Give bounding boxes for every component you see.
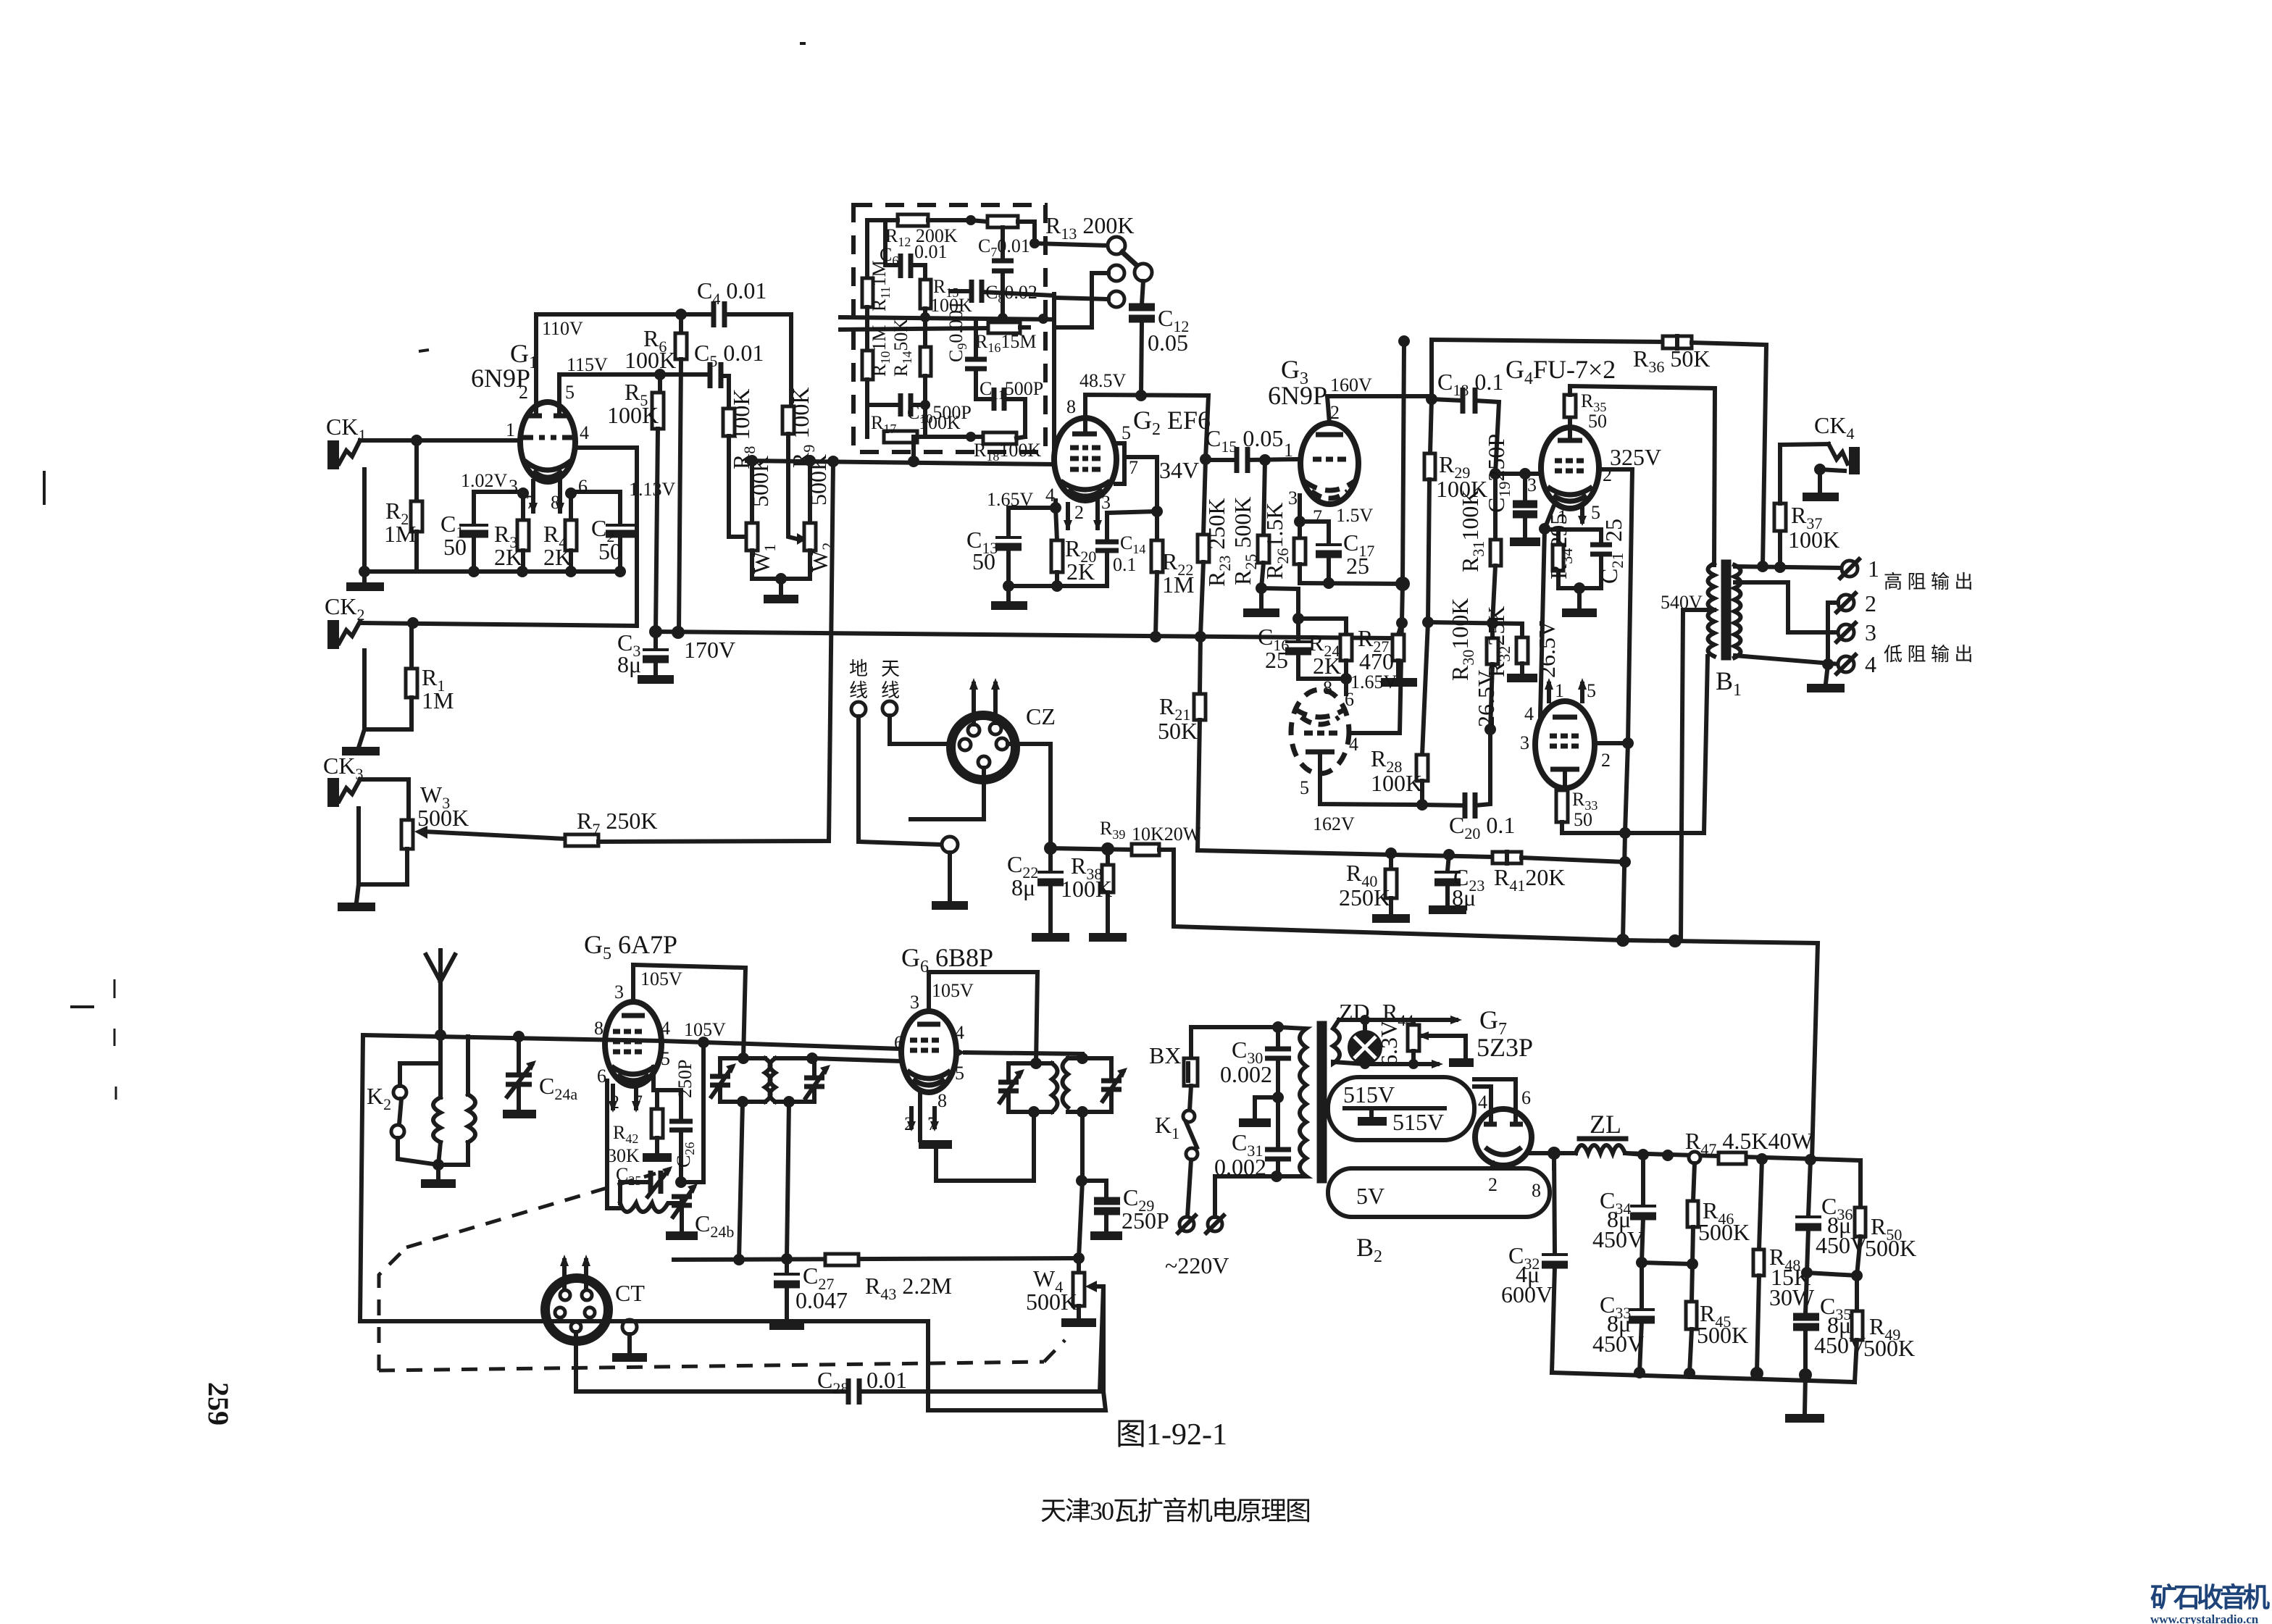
svg-text:R3225K: R3225K [1483,606,1513,677]
wire R21 decoupling rail [1198,847,1492,861]
wire 515V to rectifier plates [1474,1079,1531,1120]
svg-text:4: 4 [580,422,589,443]
svg-text:2: 2 [1601,750,1611,771]
svg-text:图1-92-1: 图1-92-1 [1116,1418,1227,1452]
antenna coil primary [421,1035,456,1184]
svg-text:6: 6 [894,1032,903,1053]
resistor R15 100K [920,265,972,317]
svg-text:450V: 450V [1592,1226,1644,1252]
wire G2 grid bus [746,455,1054,467]
svg-text:160V: 160V [1330,374,1372,395]
page margin marks [44,43,806,1100]
resistor R29 100K [1424,393,1487,622]
wire tank B bottom drop to C27 [787,1102,789,1258]
svg-text:515V: 515V [1392,1109,1444,1135]
wire cathode ground bus [364,569,620,574]
svg-text:4: 4 [661,1018,670,1039]
capacitor C26 250P [669,1060,697,1182]
svg-text:100K: 100K [1371,770,1422,796]
svg-text:25: 25 [1265,647,1288,673]
antenna [426,950,455,1041]
svg-text:450V: 450V [1592,1331,1644,1357]
svg-text:CT: CT [615,1280,645,1306]
resistor R4 2K [543,487,577,572]
svg-text:48.5V: 48.5V [1079,370,1127,391]
svg-text:ZL: ZL [1590,1110,1621,1139]
mains terminal 1 [1178,1215,1195,1233]
wire tone network to G2 grid [1052,294,1056,464]
resistor R28 100K [1371,622,1428,805]
wire G3a plate 160V line [1327,396,1430,423]
svg-text:26.5V: 26.5V [1534,621,1560,678]
wire CK1 sleeve down [362,469,367,572]
capacitor C30 0.002 [1220,1027,1291,1103]
wire 110V plate line with C4 [536,309,714,403]
svg-text:3: 3 [1527,474,1537,495]
svg-text:8μ: 8μ [1452,884,1476,911]
svg-text:~220V: ~220V [1165,1252,1229,1278]
pentagrid G5 6A7P [584,930,677,1113]
potentiometer W2 500K [804,454,837,579]
svg-text:50: 50 [598,538,622,564]
capacitor C10 500P [867,393,972,437]
svg-text:C80.02: C80.02 [985,282,1037,306]
capacitor C18 0.1 [1432,369,1503,474]
svg-text:515V: 515V [1343,1081,1395,1108]
ground tap of line filter [1239,1097,1278,1123]
svg-text:矿石收音机: 矿石收音机 [2150,1583,2270,1613]
jack CK2 [325,593,364,649]
resistor R49 500K [1852,1276,1915,1382]
resistor R12 200K [885,214,976,249]
pentode G2 EF6 [1045,396,1211,523]
svg-text:R18100K: R18100K [974,440,1041,464]
svg-text:30K: 30K [607,1145,640,1166]
svg-text:4: 4 [1524,703,1534,724]
wire R34 C21 ground rail [1558,582,1601,613]
wire lower return loop [360,1321,1106,1410]
svg-text:8: 8 [594,1018,603,1039]
wire G4a plate 325V [1599,444,1661,743]
wire 48.5V plate node [1079,370,1211,465]
capacitor C36 8u 450V [1795,1160,1867,1278]
wire filter ground rail [1552,1367,1855,1382]
svg-text:线: 线 [881,680,900,701]
svg-text:高 阻 输 出: 高 阻 输 出 [1884,572,1974,593]
capacitor C32 4u 600V [1501,1153,1568,1373]
watermark crystalradio [2150,1583,2270,1624]
resistor R45 500K [1686,1264,1748,1373]
svg-text:470: 470 [1359,648,1394,674]
capacitor C35 8u 450V [1793,1273,1866,1374]
resistor R13 200K body [971,212,1134,248]
wire C36 R50 mid rail [1807,1273,1857,1276]
wire G6 plate 105V feed [929,972,1037,1063]
terminal 地线 [849,658,942,845]
wire R33 to B1 primary bottom riser [1562,656,1708,839]
heater pins 7 8 arrows of G1 [529,481,564,514]
svg-text:1: 1 [1868,556,1879,582]
svg-text:170V: 170V [684,637,735,663]
svg-text:100K: 100K [625,347,676,373]
svg-text:5Z3P: 5Z3P [1477,1033,1533,1062]
svg-text:5: 5 [1122,422,1131,443]
svg-text:4: 4 [955,1022,964,1043]
wire 1.02V node [474,492,523,520]
resistor R30 100K [1447,598,1499,742]
svg-text:5: 5 [661,1048,670,1069]
wire G3a cathode rail to feedback node [1300,577,1410,591]
mains terminal 2 [1206,1176,1275,1233]
wire B+ junction to power filter [1616,934,1818,1160]
svg-text:6: 6 [1345,689,1354,710]
svg-text:www.crystalradio.cn: www.crystalradio.cn [2150,1612,2259,1624]
svg-text:6N9P: 6N9P [1268,381,1327,410]
resistor R26 1.5K [1261,503,1306,583]
svg-text:5: 5 [1587,680,1596,701]
capacitor C17 25 [1300,522,1374,583]
wire plates bus down to B+ line [1619,833,1631,940]
svg-text:4: 4 [1478,1092,1487,1113]
resistor R14 50K [890,317,931,405]
capacitor C2 50 [571,492,635,572]
svg-text:3: 3 [1101,492,1111,513]
svg-text:线: 线 [849,680,868,701]
svg-text:R111M: R111M [869,260,893,311]
svg-text:R36 50K: R36 50K [1633,346,1710,376]
svg-text:2K: 2K [543,544,572,570]
svg-text:0.002: 0.002 [1214,1154,1266,1180]
wire AVC line [674,1253,1079,1265]
heater arrows G5 [609,1086,640,1113]
heater pins 2 3 arrows of G2 [1064,501,1102,531]
transformer B1 [1661,562,1742,941]
svg-text:8: 8 [1532,1180,1541,1201]
svg-text:2: 2 [1488,1174,1498,1195]
svg-text:50K: 50K [1158,718,1198,744]
capacitor C5 0.01 [694,340,764,409]
heater arrows above G4b [1545,678,1587,701]
ground under CK2 [342,729,380,751]
antenna coil secondary [438,1037,475,1165]
variable capacitor C25 [616,1164,672,1197]
svg-text:5: 5 [1591,502,1600,523]
svg-text:50: 50 [443,534,467,560]
capacitor C21 25 [1590,519,1626,588]
connector CZ [949,678,1056,782]
capacitor C22 8u [1007,842,1069,937]
wire 170V B+ rail [649,625,1391,663]
jack CK3 [323,753,363,807]
svg-text:100K: 100K [1788,527,1839,553]
resistor R48 15K 30W [1753,1159,1815,1372]
potentiometer W4 500K [1026,1258,1103,1391]
resistor R18 100K [974,432,1041,464]
svg-text:6: 6 [1521,1087,1531,1108]
isolated ground terminal near CT [612,1320,647,1357]
resistor R43 2.2M [825,1254,952,1303]
wire CZ right pin to C22 node [1008,744,1051,848]
svg-text:2K: 2K [494,544,522,570]
svg-text:2K: 2K [1066,558,1095,585]
svg-text:R43 2.2M: R43 2.2M [865,1273,952,1303]
svg-text:R101M: R101M [869,325,893,377]
switch contact 3 [1054,291,1124,307]
resistor R41 20K [1492,852,1625,895]
svg-text:2: 2 [519,382,528,403]
tetrode G4a FU-7 [1541,427,1612,527]
svg-text:1M: 1M [422,687,454,713]
svg-text:低 阻 输 出: 低 阻 输 出 [1884,644,1974,665]
wire feedback riser [1396,342,1408,733]
svg-text:500K: 500K [1026,1289,1077,1315]
resistor R24 2K [1308,619,1352,679]
svg-text:10K20W: 10K20W [1132,824,1201,845]
wire B+ filter rail [1625,1149,1860,1165]
svg-text:500K: 500K [1865,1235,1916,1261]
resistor R36 50K [1633,336,1766,566]
capacitor C28 0.01 [817,1286,1103,1405]
resistor R10 1M [862,325,893,437]
capacitor C23 8u [1429,855,1484,911]
svg-text:0.1: 0.1 [1113,554,1137,575]
svg-text:500K: 500K [1863,1335,1915,1361]
resistor R6 100K [625,314,687,632]
svg-text:C5 0.01: C5 0.01 [694,340,764,370]
svg-text:2: 2 [1074,502,1084,523]
svg-text:100K: 100K [607,402,659,428]
svg-text:1.65V: 1.65V [1350,671,1398,692]
rectifier G7 5Z3P [1475,1109,1541,1201]
svg-text:50: 50 [972,548,995,574]
svg-text:7: 7 [1129,457,1138,478]
wire G3a cathode node [1294,495,1306,527]
capacitor C14 0.1 [1095,513,1145,586]
terminal 天线 [881,658,950,744]
svg-text:3: 3 [614,981,624,1003]
wire 26.5V divider row [1422,616,1522,629]
resistor R21 50K [1158,636,1206,850]
svg-text:R4120K: R4120K [1494,864,1565,895]
dashed tuning gang linkage [379,1173,1065,1370]
capacitor C12 0.05 [1129,281,1189,395]
resistor R7 250K with wiper arrow [414,808,657,846]
svg-text:1: 1 [1555,680,1564,701]
svg-text:C4 0.01: C4 0.01 [697,277,767,308]
svg-text:R34295: R34295 [1545,514,1576,579]
svg-text:25: 25 [1346,553,1369,579]
resistor R16 15M [840,322,1036,355]
svg-text:250P: 250P [674,1060,696,1098]
svg-text:3: 3 [910,992,919,1013]
switch contact 2 [1054,265,1124,327]
svg-text:4: 4 [1865,651,1876,677]
capacitor C1 50 [440,492,488,572]
svg-text:C11500P: C11500P [980,378,1043,402]
wire R19 riser into box [911,437,916,461]
svg-text:CZ: CZ [1026,703,1056,729]
resistor R33 50 [1556,788,1597,833]
wire CK2 to G1 pin4 [360,448,637,629]
resistor R44 [1339,999,1474,1069]
capacitor C6 0.01 [880,220,948,278]
wire C34 R46 mid rail [1642,1263,1692,1264]
resistor R47 4.5K 40W [1685,1128,1813,1164]
terminal 2 output [1828,590,1876,664]
wire CK3 to W3 [360,779,409,820]
svg-text:G4FU-7×2: G4FU-7×2 [1505,355,1616,388]
wire cathode to G4b pin4 [1540,529,1545,716]
wire G4b plate line [1595,737,1634,833]
wire B1 secondary tap to terminal 3 [1735,582,1840,632]
resistor R50 500K [1851,1160,1916,1281]
ground under terminal 2-4 [1807,664,1845,688]
wire CK1 tip to G1 pin1 [360,438,521,443]
terminal 3 output [1837,619,1876,645]
svg-text:地: 地 [849,658,868,679]
svg-text:3: 3 [1865,619,1876,645]
labels G7 5Z3P [1477,1005,1533,1062]
ground under CK1 bus [346,572,384,587]
svg-text:R261.5K: R261.5K [1261,503,1292,579]
svg-text:R7 250K: R7 250K [577,808,657,838]
capacitor C4 0.01 [697,277,791,406]
wire G2 cathode ground rail [991,580,1107,606]
resistor R27 470 [1358,623,1417,682]
svg-text:34V: 34V [1159,457,1199,483]
fuse BX [1149,1027,1198,1110]
potentiometer W1 500K [746,456,779,579]
resistor R22 1M [1151,511,1194,636]
svg-text:8: 8 [1323,677,1332,698]
svg-text:G2 EF6: G2 EF6 [1133,406,1211,439]
wire G3b cathode rail 1.65V [1298,671,1398,694]
resistor R42 30K [607,1067,681,1166]
switch arm [1122,252,1138,267]
capacitor C8 0.02 [951,280,1054,306]
jack CK1 [326,414,366,469]
wire rectifier output [1492,1147,1576,1168]
svg-text:3: 3 [1520,732,1529,753]
tone control dashed box [853,205,1045,452]
svg-text:3: 3 [509,476,518,497]
wire tank C return to G6 cathode [919,1094,1034,1181]
resistor R8 100K [723,389,759,537]
svg-text:8μ: 8μ [1011,874,1035,900]
svg-text:天: 天 [881,658,900,679]
resistor R34 295 [1545,514,1601,588]
svg-text:1.02V: 1.02V [461,470,508,491]
pilot lamp ZD [1339,999,1402,1066]
capacitor C7 0.01 [978,227,1030,317]
variable capacitor C24b [666,1184,734,1241]
svg-text:500K: 500K [1697,1322,1748,1348]
resistor R46 500K [1687,1163,1750,1270]
svg-text:50: 50 [1574,809,1592,830]
resistor R17 100K [871,412,983,443]
transformer B2 5V winding [1328,1168,1550,1217]
transformer B2 515V windings [1328,1077,1474,1140]
svg-text:162V: 162V [1313,813,1355,834]
oscillator coil [607,1081,682,1212]
svg-text:8: 8 [937,1090,947,1111]
svg-text:250P: 250P [1122,1207,1169,1234]
wire C16 R24 top rail [1292,613,1346,624]
terminal 4 output [1837,651,1876,677]
svg-text:R1450K: R1450K [890,319,914,377]
heater arrows G6 [907,1108,939,1131]
transformer B2 primary [1277,1027,1306,1176]
svg-text:R30100K: R30100K [1447,598,1477,681]
node CK1 top junction [411,435,422,446]
triode G1 6N9P [471,339,589,513]
wire tank B to G6 grid [812,1058,902,1061]
jack CK4 [1780,412,1860,497]
choke ZL [1576,1110,1643,1155]
svg-text:0.047: 0.047 [795,1287,848,1313]
IF tank B [770,1052,831,1108]
resistor R1 1M [406,623,454,729]
svg-text:105V: 105V [640,968,682,989]
resistor R23 250K [1198,459,1234,636]
wire G4a cathode node [1539,507,1587,535]
svg-text:2: 2 [1330,402,1340,423]
svg-text:1: 1 [1284,440,1293,461]
capacitor C11 500P [976,378,1043,437]
resistor R38 100K [1061,849,1127,937]
potentiometer W3 500K [401,782,469,884]
wire mixer node riser [675,1042,703,1188]
svg-text:1M: 1M [384,521,416,547]
svg-text:100K: 100K [919,412,961,433]
svg-text:110V: 110V [542,318,583,339]
svg-text:R25 500K: R25 500K [1229,497,1260,585]
svg-text:105V: 105V [684,1019,726,1040]
tetrode G4b FU-7 [1520,680,1611,788]
svg-text:1.5V: 1.5V [1336,505,1374,526]
resistor R25 500K [1229,460,1279,613]
capacitor C19 250P [1483,434,1540,542]
capacitor C27 0.047 [769,1259,848,1326]
svg-text:105V: 105V [932,980,974,1001]
svg-text:26.5V: 26.5V [1473,670,1499,727]
svg-text:5: 5 [565,382,575,403]
svg-text:C19250P: C19250P [1483,434,1513,513]
resistor R2 1M [384,440,422,572]
svg-text:4: 4 [1349,734,1358,755]
wire R25 to C16 R24 rail [1261,588,1298,619]
triode G3a 6N9P [1268,355,1374,527]
IF tank A [710,1052,771,1108]
resistor R32 25K [1483,606,1537,678]
resistor R37 100K [1774,445,1839,567]
wire R7 to grid bus riser and ground-line terminal [598,461,833,842]
wire CK3 sleeve down [359,808,407,884]
svg-text:7: 7 [1313,506,1322,527]
wire 1.65V cathode node [987,489,1061,514]
wire B1 secondary bottom to terminal 4 [1735,656,1840,670]
wire C22 node to R39 [1051,842,1132,855]
capacitor C3 8u [617,629,674,679]
wire 115V line with C5 [559,354,710,403]
svg-text:5V: 5V [1356,1183,1384,1209]
capacitor C31 0.002 [1214,1097,1291,1182]
svg-text:8: 8 [1066,396,1076,417]
svg-text:3: 3 [1288,487,1298,508]
svg-text:0.05: 0.05 [1148,330,1188,356]
svg-text:C90.001: C90.001 [945,301,969,362]
resistor R31 100K [1457,474,1501,623]
